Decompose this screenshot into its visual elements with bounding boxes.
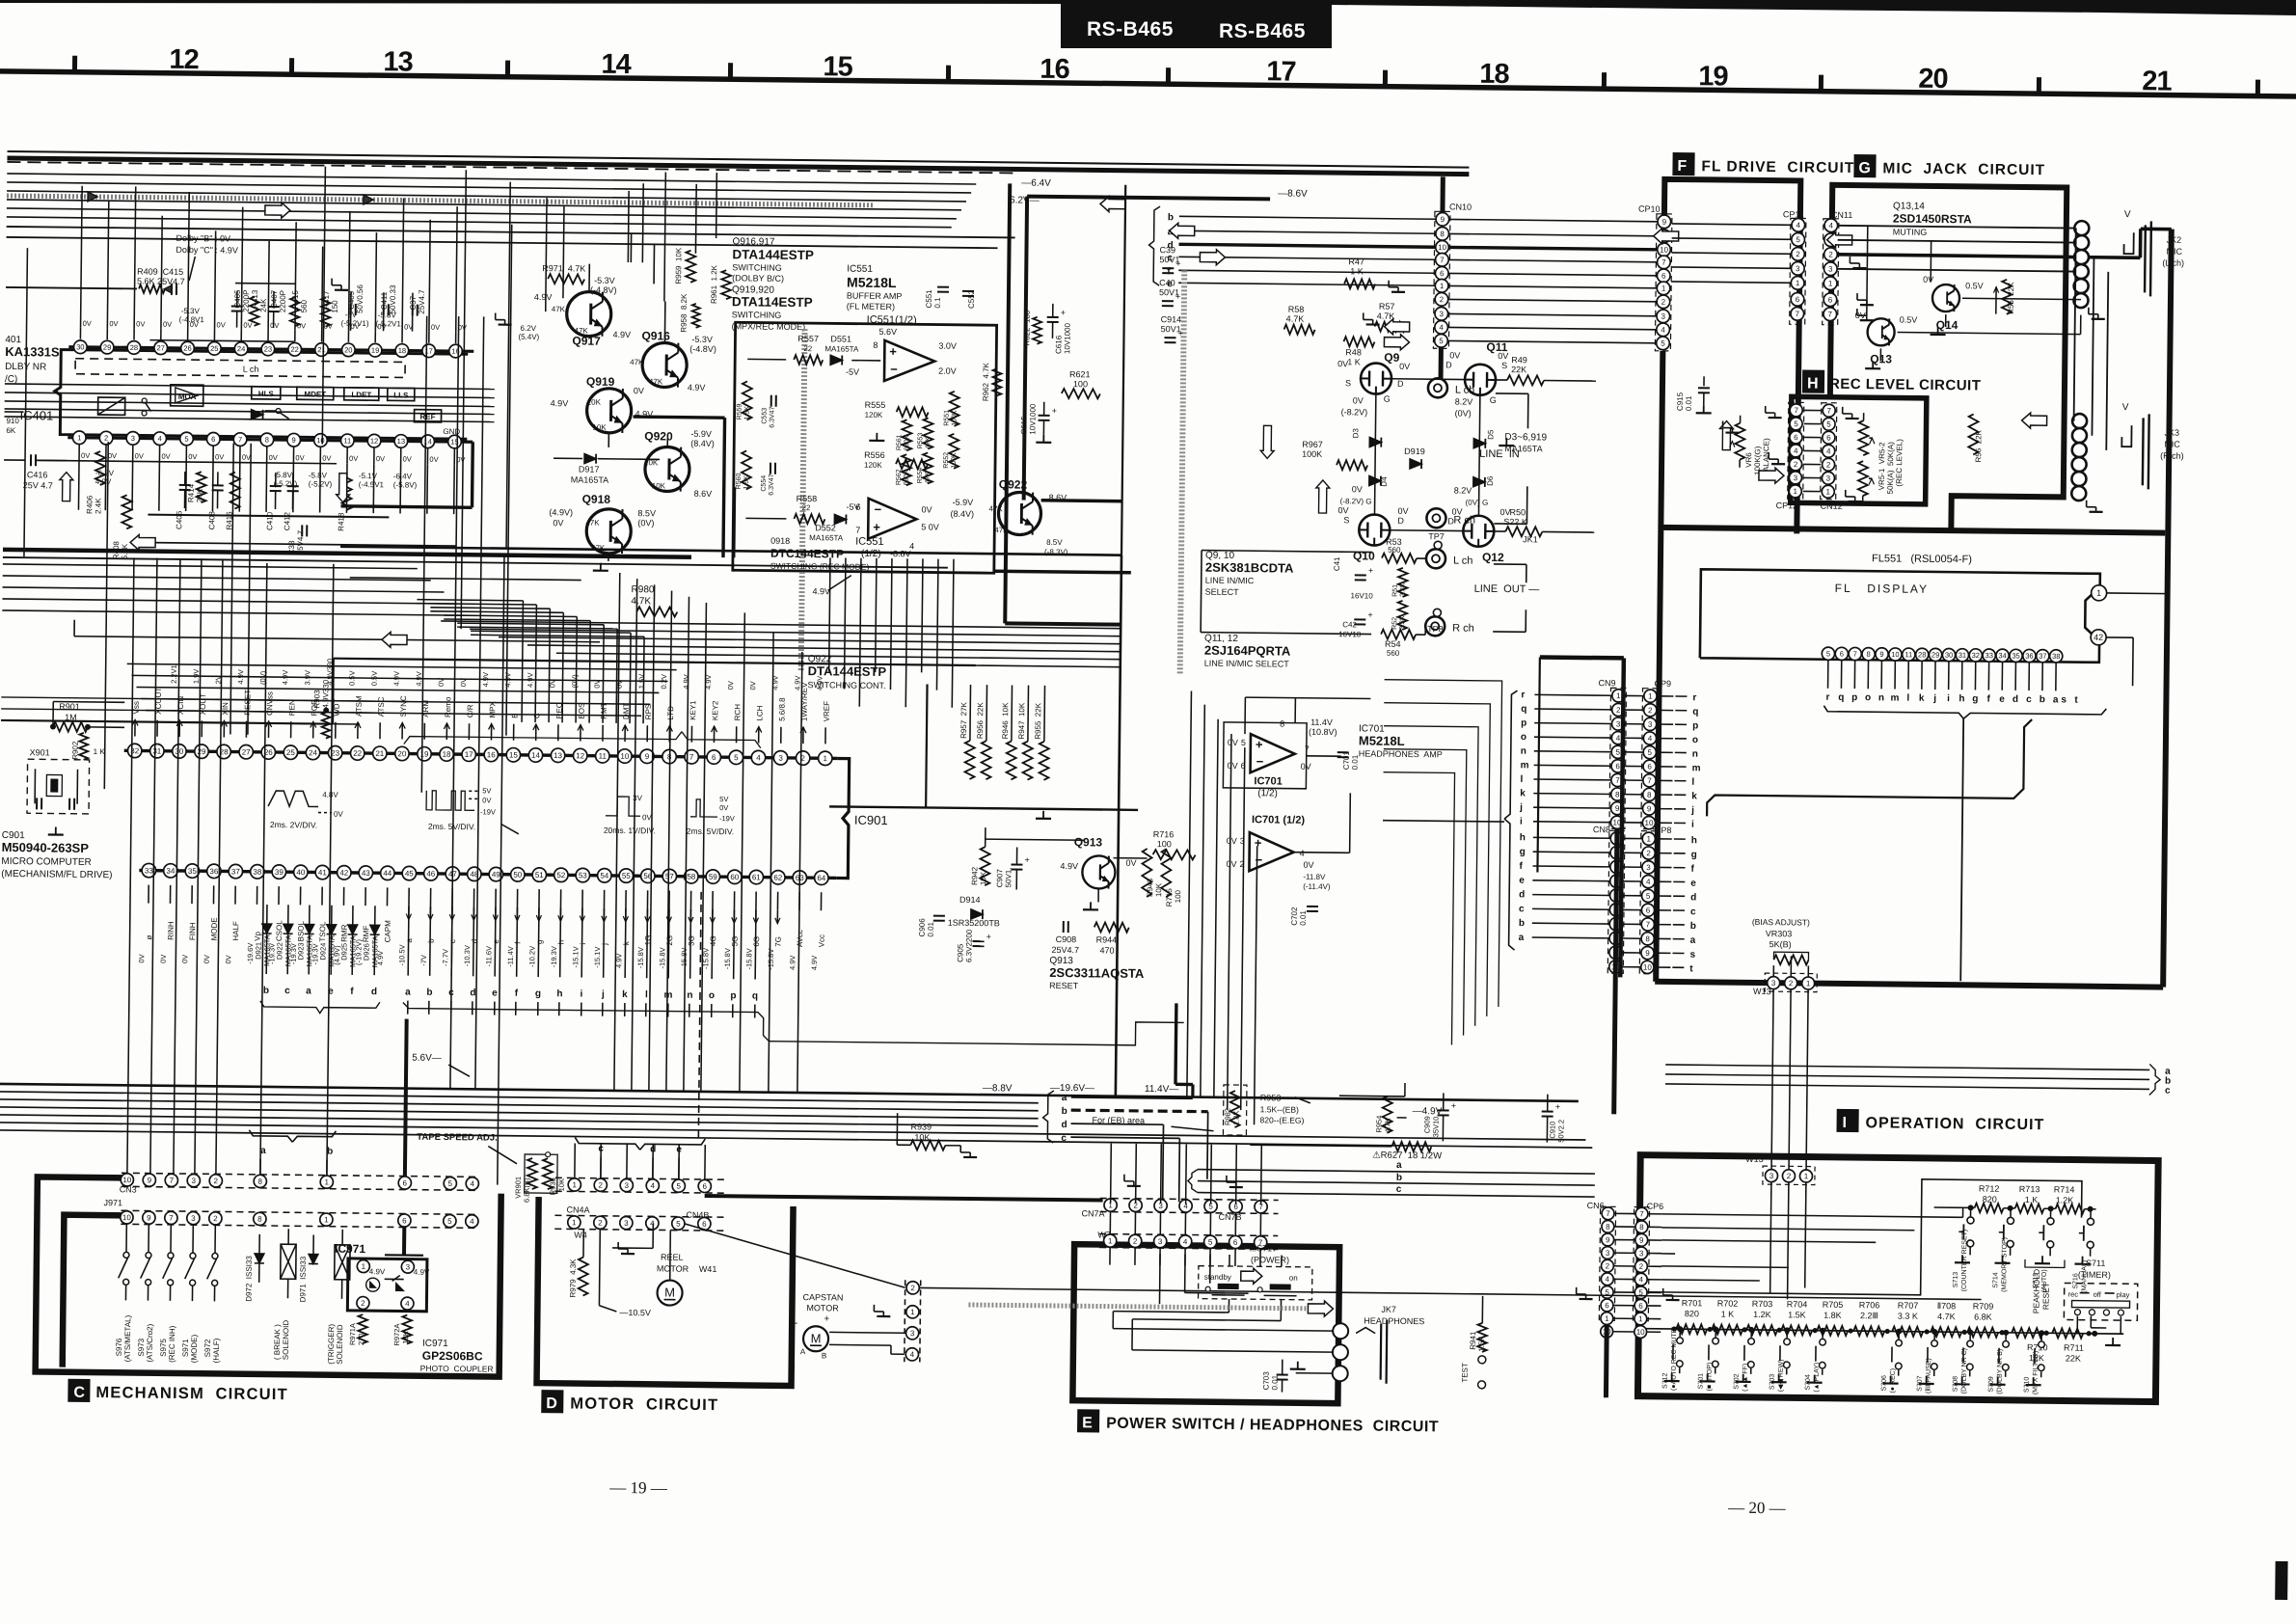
wire 6.2V feed [7, 237, 998, 248]
W7 row [1099, 1233, 1278, 1235]
CN8 pin 9 [1609, 946, 1622, 959]
svg-text:0V: 0V [1228, 761, 1238, 771]
svg-text:8.6V: 8.6V [694, 489, 713, 499]
svg-text:2: 2 [1616, 706, 1621, 715]
J971 pin 8 [254, 1212, 266, 1225]
svg-text:2: 2 [1828, 251, 1833, 259]
svg-text:5: 5 [677, 1181, 682, 1190]
FL551 pin 38 [2050, 650, 2063, 663]
svg-text:6: 6 [712, 753, 716, 762]
svg-text:Vcc: Vcc [818, 934, 826, 947]
svg-text:1: 1 [1108, 1236, 1113, 1245]
svg-text:4: 4 [1300, 849, 1305, 858]
svg-text:6.3V2200: 6.3V2200 [964, 929, 973, 962]
svg-text:13: 13 [554, 751, 563, 760]
shaded trace into E box [968, 1305, 1315, 1309]
svg-text:CAPSTAN: CAPSTAN [802, 1292, 843, 1302]
svg-text:8: 8 [257, 1215, 262, 1224]
svg-text:3: 3 [131, 434, 135, 443]
svg-text:CN6: CN6 [1587, 1201, 1605, 1210]
IC401 pin 24 [234, 342, 248, 356]
FET Q12 [1463, 516, 1494, 547]
IC401 pin row top line [68, 347, 473, 352]
svg-text:18: 18 [1479, 59, 1509, 90]
svg-text:m: m [1890, 692, 1899, 703]
svg-text:0V: 0V [349, 454, 358, 463]
IC401 pin 25 [207, 341, 221, 355]
svg-text:D926: D926 [362, 943, 370, 961]
svg-text:XIN: XIN [221, 702, 230, 716]
diode D971 ISS133 [312, 1235, 314, 1255]
svg-text:4: 4 [405, 1299, 410, 1308]
svg-text:(MEMORY STOP): (MEMORY STOP) [2001, 1237, 2009, 1292]
svg-text:47K: 47K [925, 472, 932, 484]
svg-text:(0V): (0V) [637, 518, 654, 528]
model label plate RS-B465 [1061, 0, 1332, 48]
svg-text:8: 8 [1866, 650, 1870, 659]
svg-text:0V: 0V [634, 386, 644, 395]
resistor R414 24K [197, 472, 206, 502]
CN7 pin 2 [1129, 1199, 1142, 1211]
CN3 pin 9 [143, 1174, 155, 1186]
svg-text:2: 2 [1440, 295, 1445, 304]
svg-text:1: 1 [325, 1177, 330, 1186]
svg-text:IC701 (1/2): IC701 (1/2) [1252, 814, 1305, 826]
svg-text:D924: D924 [318, 943, 327, 961]
svg-text:i: i [581, 989, 583, 1000]
svg-text:2ms. 5V/DIV.: 2ms. 5V/DIV. [428, 822, 475, 832]
svg-text:j: j [1690, 805, 1694, 816]
svg-text:8.5V: 8.5V [1046, 538, 1063, 547]
svg-text:HEADPHONES: HEADPHONES [1364, 1315, 1424, 1326]
arrow on wire 5 [1384, 335, 1409, 350]
resistor R972A 18K [402, 1315, 412, 1344]
scanner top edge bar [0, 0, 2296, 15]
svg-text:20: 20 [1918, 64, 1948, 95]
svg-text:DTA144ESTP: DTA144ESTP [732, 247, 814, 262]
section label I OPERATION CIRCUIT [1836, 1109, 1858, 1132]
FL551 pin 9 [1876, 648, 1888, 661]
svg-text:c: c [1519, 904, 1525, 914]
ruler tick 3 [728, 63, 733, 79]
capacitor/resistor C411 50V0.33 [383, 304, 385, 315]
svg-text:(-5.2V1: (-5.2V1 [376, 319, 402, 328]
svg-text:8: 8 [1615, 790, 1620, 798]
svg-text:c: c [1061, 1133, 1067, 1144]
capacitor/resistor C409 50V0.56 [350, 304, 352, 315]
W7 pin 6 [1229, 1235, 1242, 1248]
svg-text:C: C [73, 1385, 85, 1401]
IC901 pin 17 [462, 747, 476, 762]
svg-text:b: b [327, 1147, 333, 1157]
gnd stub near R47 [1388, 281, 1390, 287]
CP6 pin 10 [1634, 1326, 1647, 1339]
svg-text:15: 15 [823, 51, 852, 82]
resistor R971 4.7K [548, 274, 584, 284]
svg-text:c: c [1396, 1184, 1402, 1195]
FL551 pin 35 [2010, 649, 2022, 662]
svg-text:R51: R51 [1392, 584, 1399, 597]
net letters right of CP9 [1675, 695, 1687, 697]
svg-text:R414: R414 [187, 483, 196, 502]
svg-text:4.9V: 4.9V [551, 398, 569, 408]
svg-text:4.9V330: 4.9V330 [321, 679, 330, 708]
svg-text:R943: R943 [1146, 878, 1154, 897]
svg-text:46: 46 [426, 870, 436, 879]
svg-text:7: 7 [1826, 407, 1831, 416]
svg-text:R942: R942 [970, 866, 979, 885]
svg-text:-5.8V: -5.8V [378, 311, 397, 319]
svg-text:REEL: REEL [661, 1252, 684, 1261]
svg-text:b: b [1168, 212, 1174, 223]
IC901 pin 20 [395, 746, 410, 761]
svg-text:270: 270 [357, 1334, 365, 1346]
svg-text:+: + [1061, 308, 1066, 317]
svg-text:11.4V: 11.4V [1310, 717, 1333, 727]
jack LINE OUT R ch [1425, 616, 1445, 636]
heavy vertical right edge [2163, 230, 2172, 988]
svg-text:2: 2 [1826, 461, 1831, 470]
IC701 lower op-amp [1249, 832, 1293, 872]
IC901 pin 9 [640, 749, 655, 764]
capacitor/resistor C37 25V4.7 [412, 305, 414, 316]
a b feed bracket above C box [249, 1130, 292, 1142]
svg-text:4G: 4G [709, 935, 717, 946]
svg-text:DTA114ESTP: DTA114ESTP [732, 294, 813, 310]
svg-text:R982: R982 [1224, 1108, 1232, 1125]
CN4 pin 2 [594, 1178, 607, 1191]
test point TP8 [1433, 609, 1441, 616]
IC401 L-ch dashed box [75, 359, 405, 378]
svg-text:CN8: CN8 [1593, 825, 1610, 834]
diode D552 MA165TA [834, 514, 846, 524]
wires down from CN3 to switches [125, 1224, 127, 1252]
resistor R710 12K [2012, 1328, 2042, 1338]
wires CN7A to W7 [1109, 1212, 1111, 1234]
svg-text:10: 10 [1660, 246, 1669, 255]
svg-text:R957 27K: R957 27K [959, 701, 968, 739]
svg-text:33: 33 [1985, 651, 1993, 660]
IC401 pin 21 [315, 343, 329, 357]
svg-text:R939: R939 [910, 1122, 932, 1131]
svg-text:0V: 0V [376, 454, 385, 463]
svg-text:MA165TA: MA165TA [305, 935, 313, 967]
svg-text:k: k [1691, 791, 1697, 801]
box I operation circuit [1637, 1155, 2158, 1402]
IC901 pin 18 [440, 747, 454, 762]
resistor R959 10K [686, 251, 695, 283]
arrow on hatched line [88, 192, 97, 202]
left entry wires to dolby lower block [5, 384, 495, 390]
heavy rail to CN7A [705, 1196, 1103, 1201]
svg-text:(▲▲ FF): (▲▲ FF) [1742, 1364, 1749, 1392]
svg-text:R944: R944 [1096, 934, 1118, 944]
svg-text:1: 1 [1796, 279, 1800, 287]
svg-text:(REC INH): (REC INH) [168, 1325, 176, 1363]
svg-text:j: j [1932, 693, 1936, 704]
svg-text:Q13,14: Q13,14 [1893, 201, 1925, 211]
potentiometer VR5-1 VR5-2 REC LEVEL [1858, 420, 1868, 455]
solenoid BREAK [281, 1244, 296, 1279]
svg-text:7: 7 [1796, 310, 1800, 318]
svg-text:-15.8V: -15.8V [767, 949, 775, 970]
svg-text:+: + [1368, 566, 1373, 576]
svg-text:C616: C616 [1054, 335, 1063, 354]
FL551 pin 42 [2091, 630, 2106, 645]
ground JK2 [2088, 308, 2090, 314]
diode D3 [1374, 394, 1375, 515]
svg-text:4: 4 [1616, 734, 1621, 743]
svg-text:S710: S710 [2024, 1377, 2031, 1394]
IC401 pin 27 [154, 341, 168, 355]
IC901 pin 32 [127, 744, 142, 758]
svg-text:-6.4V: -6.4V [393, 472, 413, 480]
IC901 pin 23 [328, 745, 342, 760]
svg-text:S708: S708 [1953, 1376, 1959, 1393]
svg-text:IC971: IC971 [422, 1339, 448, 1349]
trimmer VR901 6.8K [525, 1154, 557, 1193]
mid horizontals above IC901 [127, 663, 677, 669]
resistor R958 8.2K [692, 304, 700, 328]
svg-text:100: 100 [1157, 839, 1172, 849]
svg-text:d: d [1519, 889, 1525, 900]
IC901 pin 41 [315, 865, 330, 880]
svg-text:21: 21 [375, 749, 385, 758]
svg-text:0V: 0V [136, 319, 145, 328]
svg-text:n: n [1692, 749, 1698, 760]
svg-text:4: 4 [1796, 221, 1801, 230]
svg-text:27: 27 [156, 343, 164, 352]
svg-text:C40: C40 [1159, 278, 1175, 287]
svg-text:t: t [2074, 695, 2078, 706]
svg-text:10: 10 [316, 436, 324, 445]
svg-text:R712: R712 [1979, 1183, 2000, 1193]
svg-text:+: + [1256, 737, 1263, 751]
svg-text:MOTOR: MOTOR [806, 1303, 839, 1313]
heavy net Q920 right [732, 487, 736, 557]
svg-text:RCH: RCH [733, 704, 742, 721]
svg-text:(8.4V): (8.4V) [950, 509, 974, 519]
IC901 pin 56 [641, 869, 656, 883]
capacitor/resistor R415 560 [290, 297, 300, 326]
svg-text:-11.6V: -11.6V [484, 946, 493, 967]
IC401 pin 6 [206, 432, 220, 446]
J971 pin 7 [165, 1211, 177, 1224]
svg-text:3.3K: 3.3K [1400, 582, 1407, 597]
CN7 pin 3 [1154, 1200, 1167, 1212]
resistor R52 3.3K [1397, 601, 1407, 630]
svg-text:i: i [579, 943, 587, 945]
IC901 pin 4 [751, 750, 766, 765]
IC401 component rail [149, 340, 294, 342]
svg-text:TP7: TP7 [1428, 531, 1445, 541]
transistor Q922 [998, 492, 1040, 534]
svg-text:R980: R980 [632, 584, 655, 595]
wires to JK7 [1112, 1312, 1114, 1329]
diode D6 [1473, 477, 1485, 487]
svg-text:-10.5V: -10.5V [397, 944, 406, 965]
svg-text:4.7K: 4.7K [631, 596, 651, 607]
IC901 top pin row line [124, 750, 838, 758]
svg-text:RPS: RPS [644, 704, 653, 720]
heavy elbow to FL section [1540, 655, 1624, 660]
svg-text:2: 2 [1133, 1237, 1138, 1246]
ruler tick 4 [946, 66, 951, 82]
svg-text:5G: 5G [731, 936, 740, 947]
svg-text:5.6V—: 5.6V— [412, 1053, 442, 1064]
svg-text:a: a [405, 988, 411, 998]
svg-text:f: f [1986, 694, 1990, 705]
wires CN10 to CP10 [1449, 219, 1658, 221]
resistor R562 680K [902, 454, 911, 485]
svg-text:1.5K--(EB): 1.5K--(EB) [1260, 1104, 1299, 1114]
svg-text:12: 12 [370, 437, 378, 446]
svg-text:5: 5 [734, 753, 739, 762]
svg-text:-6V: -6V [345, 311, 358, 319]
svg-text:0V: 0V [1855, 311, 1866, 320]
wires CP6 into operation box [1662, 1214, 1963, 1217]
svg-text:VREF: VREF [823, 701, 831, 722]
section label F FL DRIVE CIRCUIT [1672, 152, 1694, 176]
svg-text:0V: 0V [1923, 275, 1933, 284]
svg-text:a: a [1396, 1160, 1402, 1171]
svg-text:9: 9 [1639, 1236, 1644, 1245]
svg-text:-7.7V: -7.7V [441, 949, 449, 966]
svg-text:l: l [645, 989, 648, 1000]
IC901 bottom pin row line [139, 871, 836, 879]
svg-text:Dolby "B" : 0V: Dolby "B" : 0V [176, 233, 231, 244]
svg-text:2ms. 2V/DIV.: 2ms. 2V/DIV. [270, 820, 317, 830]
switch S971 (MODE) [190, 1253, 196, 1259]
svg-text:SWITCHING: SWITCHING [732, 310, 782, 320]
wires heading to CN9 region collect [769, 1018, 1183, 1046]
svg-text:0.1: 0.1 [933, 297, 942, 309]
svg-text:VR901: VR901 [514, 1177, 523, 1199]
fan corners right of IC901 bus [1, 697, 408, 702]
svg-text:S973: S973 [137, 1338, 146, 1356]
svg-text:m: m [1692, 763, 1701, 773]
svg-text:22: 22 [290, 345, 298, 354]
resistor R962 4.7K [992, 368, 1001, 395]
svg-text:MA165TA: MA165TA [824, 344, 859, 353]
svg-text:R704: R704 [1787, 1299, 1808, 1309]
svg-text:5K(B): 5K(B) [1769, 939, 1792, 949]
svg-text:25: 25 [286, 748, 296, 757]
svg-text:C412: C412 [283, 511, 291, 530]
svg-text:Q12: Q12 [1482, 551, 1504, 564]
svg-text:MA165TA: MA165TA [284, 934, 292, 966]
svg-text:4: 4 [1646, 878, 1651, 886]
capacitor C616 10V1000 [1047, 316, 1059, 318]
IC901 pin 29 [195, 744, 209, 759]
svg-text:1: 1 [910, 1308, 915, 1316]
svg-text:W4: W4 [574, 1230, 587, 1239]
svg-text:f: f [350, 987, 354, 997]
heavy feed to IC971 [402, 1228, 406, 1256]
IC401 LLS block [388, 388, 415, 400]
waveform sketch 2ms 5V/DIV B [690, 799, 717, 817]
test point TP7 [1434, 541, 1442, 549]
svg-text:7: 7 [170, 1177, 175, 1185]
CN6 pin 6 [1601, 1299, 1613, 1312]
svg-text:4.7K: 4.7K [1286, 314, 1305, 324]
svg-text:S701: S701 [1698, 1373, 1705, 1390]
capacitor C702 0.01 [1307, 906, 1318, 907]
CN8 pin 10 [1609, 961, 1622, 973]
wire vertical [216, 558, 223, 1177]
svg-text:R972A: R972A [392, 1323, 401, 1345]
svg-text:3: 3 [1158, 1237, 1163, 1246]
svg-text:0V: 0V [1449, 350, 1460, 360]
IC401 pin 30 [73, 340, 87, 354]
svg-text:4.9V: 4.9V [612, 330, 631, 339]
svg-text:Q913: Q913 [1074, 835, 1103, 849]
svg-text:-15.1V: -15.1V [571, 946, 580, 967]
connector CN12 [1821, 403, 1837, 500]
svg-text:d: d [371, 987, 377, 997]
svg-text:Vp: Vp [254, 931, 262, 940]
svg-text:L ch: L ch [1455, 384, 1475, 395]
svg-text:25V4.7: 25V4.7 [418, 289, 426, 314]
capacitor C416 25V4.7 [30, 454, 32, 466]
svg-text:D923: D923 [296, 942, 305, 960]
svg-text:D919: D919 [1404, 447, 1425, 456]
wires S717 [1229, 1255, 1230, 1266]
svg-text:MODE: MODE [210, 917, 219, 940]
svg-text:6: 6 [1840, 649, 1844, 658]
svg-text:1: 1 [1605, 1314, 1609, 1323]
svg-text:560: 560 [300, 299, 309, 312]
svg-text:680K: 680K [904, 470, 910, 486]
switch S708 (DOLBY NR C) [1969, 1332, 1971, 1340]
IC401 pin 2 [99, 431, 113, 445]
svg-text:10: 10 [1636, 1328, 1646, 1337]
resistor R954 4.7K [1382, 1096, 1391, 1133]
svg-text:10K: 10K [979, 871, 987, 885]
svg-text:0V: 0V [482, 796, 491, 804]
svg-text:rec: rec [2068, 1290, 2079, 1299]
svg-text:1.5K: 1.5K [1788, 1310, 1806, 1319]
svg-text:(ATS/Cro2): (ATS/Cro2) [146, 1323, 154, 1362]
svg-text:ATSC: ATSC [377, 696, 386, 717]
svg-text:R706: R706 [1859, 1300, 1880, 1310]
svg-text:0V: 0V [159, 955, 168, 963]
svg-text:—8.8V: —8.8V [983, 1083, 1013, 1094]
jack LINE IN L ch [1428, 378, 1447, 397]
CP6 pin 9 [1635, 1233, 1648, 1246]
capacitor C908 25V4.7 [1063, 921, 1065, 933]
svg-text:13: 13 [383, 46, 413, 77]
svg-text:G: G [1384, 394, 1391, 404]
mesh under IC551 block right [740, 612, 744, 1092]
svg-text:0V: 0V [135, 451, 144, 460]
svg-text:-5.9V: -5.9V [690, 429, 712, 439]
svg-text:6K: 6K [6, 426, 16, 435]
svg-text:C: C [532, 713, 541, 718]
W7 pin 5 [1204, 1235, 1217, 1248]
svg-text:g: g [535, 940, 544, 945]
bracket for CN9 letters [1504, 690, 1517, 819]
resistor R979 4.3K [579, 1258, 588, 1296]
svg-text:6.2V: 6.2V [521, 324, 537, 333]
svg-text:4: 4 [1439, 323, 1444, 332]
svg-text:0V: 0V [1228, 738, 1238, 747]
svg-text:p: p [730, 990, 736, 1001]
svg-text:22K: 22K [1511, 365, 1526, 374]
FL551 pin 8 [1862, 648, 1875, 661]
svg-text:+: + [1367, 609, 1372, 619]
svg-text:50: 50 [513, 871, 523, 880]
